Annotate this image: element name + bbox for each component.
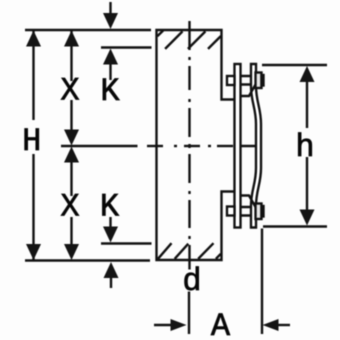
top bolt shaft — [241, 76, 252, 85]
A right arrow tail — [278, 324, 290, 326]
arrow X center down — [64, 130, 79, 146]
arrow X top — [64, 31, 79, 47]
svg-text:A: A — [211, 308, 231, 340]
top wedge — [241, 85, 256, 97]
arrow A right (points left) — [263, 319, 279, 331]
top bolt head — [227, 76, 235, 85]
plate outline — [157, 30, 235, 260]
arrow h top — [300, 66, 315, 82]
arrow h bottom — [300, 210, 315, 226]
d extension line below label — [188, 292, 190, 335]
arrow K top inner (up) — [103, 49, 118, 65]
vertical centerline — [188, 21, 190, 270]
hatching bottom band — [158, 243, 221, 259]
bottom dimension line — [25, 259, 150, 261]
K bottom reference line — [101, 242, 152, 244]
bottom wedge — [241, 196, 256, 208]
strip (hanger) — [251, 64, 261, 228]
K top reference line — [101, 46, 152, 48]
bottom nut — [256, 204, 262, 220]
svg-text:d: d — [182, 263, 201, 300]
bottom bolt shaft — [241, 207, 252, 216]
K top outside arrow shaft — [109, 2, 111, 14]
K bottom inner arrow shaft — [109, 217, 111, 228]
A left arrow tail — [154, 324, 172, 326]
arrow H bottom — [26, 244, 41, 260]
arrow K top outside (down) — [103, 13, 118, 29]
rail bar — [235, 64, 241, 228]
arrow X center up — [64, 147, 79, 163]
top dimension line — [25, 29, 151, 31]
A right extension line — [261, 229, 263, 335]
hatching top band — [157, 31, 221, 49]
arrow H top — [26, 31, 41, 47]
svg-text:h: h — [295, 129, 314, 166]
K top inner arrow shaft — [109, 63, 111, 80]
arrow K bottom inner (down) — [103, 227, 118, 243]
top nut — [256, 73, 262, 89]
top nut tab — [262, 75, 264, 86]
h top extension line — [262, 64, 327, 66]
svg-text:H: H — [22, 123, 41, 160]
arrow X bottom — [64, 244, 79, 260]
horizontal centerline — [61, 145, 261, 147]
h dimension line — [306, 81, 308, 210]
arrow A left (points right) — [171, 319, 187, 331]
bottom bolt head — [227, 207, 235, 216]
svg-text:X: X — [60, 73, 79, 110]
K bottom outside arrow shaft — [110, 277, 112, 288]
svg-text:K: K — [100, 73, 120, 110]
X dimension line — [70, 31, 72, 246]
svg-text:K: K — [100, 189, 120, 226]
h bottom extension line — [263, 225, 327, 227]
H dimension line — [32, 31, 34, 260]
bottom nut tab — [262, 206, 264, 217]
svg-text:X: X — [60, 189, 79, 226]
arrow K bottom outside (up) — [104, 262, 119, 278]
